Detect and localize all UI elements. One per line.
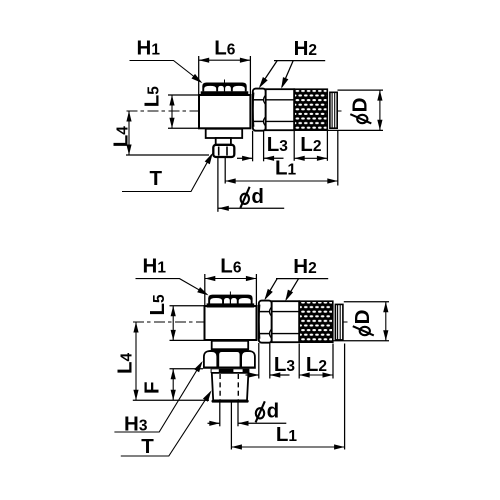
- sleeve tube (top view): [266, 89, 295, 130]
- label L5 (bottom view): [146, 294, 169, 316]
- banjo bolt hex head (top view): [202, 83, 246, 92]
- leader H3 (bottom view): [114, 363, 201, 432]
- leader H2 second arrow (top view): [282, 61, 293, 87]
- dimension L5 extension lines (bottom view): [170, 305, 205, 307]
- dimension L2 extension lines (top view): [293, 131, 295, 161]
- dimension L2 line (bottom view): [299, 374, 333, 376]
- label L4 (bottom view): [114, 352, 137, 374]
- hex H3 (bottom view): [203, 350, 256, 369]
- stud between flange and nut (top view): [216, 138, 231, 145]
- label L5 (top view): [141, 86, 164, 108]
- label L4 (top view): [110, 126, 133, 148]
- dimension F extension line (bottom view): [170, 368, 204, 370]
- dimension L6 extension lines (top view): [198, 56, 200, 95]
- dimension L5 line (bottom view): [172, 306, 174, 341]
- dimension L4 extension line (top view): [126, 154, 209, 156]
- centerline horizontal (bottom view): [133, 321, 348, 323]
- leader H1 (bottom view): [136, 279, 207, 295]
- banjo bolt hex head (bottom view): [208, 295, 252, 304]
- dimension L3 arrows (top view): [237, 157, 253, 159]
- dimension L3 extension lines (bottom view): [258, 343, 260, 379]
- dimension L1 extension lines (bottom view): [230, 403, 232, 450]
- dimension L2 line (top view): [294, 157, 327, 159]
- dimension F line (bottom view): [172, 369, 174, 401]
- svg-text:T: T: [150, 167, 163, 190]
- end cap ring (bottom view): [335, 304, 343, 340]
- leader H2 first arrow (bottom view): [276, 278, 328, 280]
- dimension L6 line (top view): [199, 59, 251, 61]
- dimension L6 extension lines (bottom view): [204, 274, 206, 306]
- knurled grip section (bottom view): [299, 301, 333, 342]
- lower flange step (top view): [206, 129, 243, 138]
- dimension phi-D line (bottom view): [385, 302, 387, 341]
- dimension L4 extension line (bottom view): [133, 399, 209, 401]
- label phi-d (top view): [241, 194, 249, 204]
- svg-text:F: F: [141, 381, 164, 394]
- centerline vertical (top view): [224, 80, 226, 158]
- dimension L1 line (top view): [225, 180, 338, 182]
- leader H1 (top view): [130, 61, 202, 83]
- svg-text:D: D: [349, 98, 372, 113]
- dimension phi-d extension lines (bottom view): [219, 403, 221, 427]
- lower hex nut (top view): [213, 145, 234, 157]
- centerline vertical (bottom view): [229, 292, 231, 403]
- taper thread (bottom view): [212, 373, 249, 401]
- dimension L3 extension lines (top view): [252, 131, 254, 162]
- thread minor diameter dashed lines (bottom view): [219, 374, 221, 400]
- dimension phi-D extension lines (top view): [338, 89, 384, 91]
- label F (bottom view): [141, 381, 164, 394]
- leader H2 first arrow (top view): [274, 60, 325, 62]
- dimension L5 line (top view): [171, 95, 173, 128]
- dimension L4 line (top view): [128, 111, 130, 155]
- svg-text:D: D: [351, 310, 374, 325]
- dimension L1 extension lines (top view): [224, 157, 226, 183]
- lower flange step (bottom view): [212, 341, 249, 349]
- svg-text:d: d: [267, 400, 280, 423]
- leader T (top view): [122, 155, 212, 192]
- dimension phi-d line (top view): [218, 207, 284, 209]
- sleeve tube (bottom view): [272, 301, 300, 342]
- leader T (bottom view): [121, 392, 211, 456]
- dimension phi-D line (top view): [379, 90, 381, 130]
- dimension phi-d extension line (top view): [217, 157, 219, 212]
- fitting body (top view): [199, 95, 250, 128]
- dimension L6 line (bottom view): [205, 278, 257, 280]
- label phi-D (top view): [349, 98, 372, 124]
- dimension L1 line (bottom view): [231, 446, 344, 448]
- leader H2 second arrow (bottom view): [286, 279, 299, 300]
- svg-text:d: d: [251, 185, 264, 208]
- tube connector hex (top view): [253, 89, 266, 131]
- centerline horizontal (top view): [127, 110, 342, 112]
- dimension phi-D extension lines (bottom view): [344, 301, 389, 303]
- end cap ring (top view): [330, 92, 337, 128]
- dimension L2 extension lines (bottom view): [298, 344, 300, 379]
- label phi-D (bottom view): [351, 310, 374, 336]
- dimension phi-d arrows (bottom view): [208, 422, 220, 424]
- svg-text:T: T: [141, 435, 154, 458]
- fitting body (bottom view): [205, 306, 257, 340]
- knurled grip section (top view): [294, 89, 327, 130]
- dimension L3 arrows (bottom view): [246, 374, 259, 376]
- dimension L5 extension lines (top view): [168, 94, 199, 96]
- label phi-d (bottom view): [256, 408, 264, 418]
- neck below hex (bottom view): [211, 369, 250, 373]
- tube connector hex (bottom view): [259, 301, 272, 343]
- dimension L4 line (bottom view): [135, 322, 137, 400]
